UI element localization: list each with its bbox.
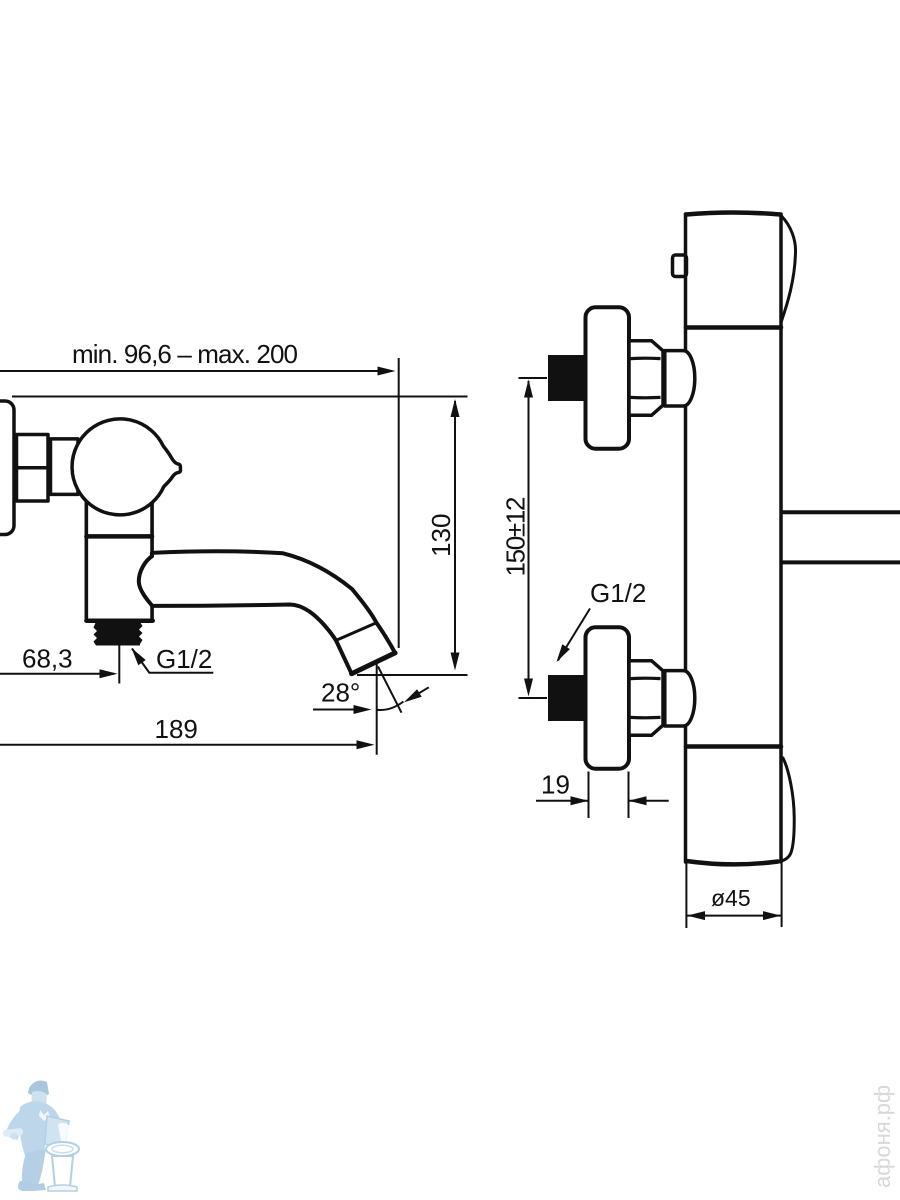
body edges [684,214,688,351]
svg-text:афоня.рф: афоня.рф [870,1085,895,1188]
svg-text:189: 189 [155,714,198,744]
svg-text:68,3: 68,3 [22,644,73,674]
svg-text:min. 96,6 – max. 200: min. 96,6 – max. 200 [72,339,298,369]
svg-text:G1/2: G1/2 [156,644,212,674]
svg-text:19: 19 [541,770,570,800]
top fitting yc=378 [548,307,695,448]
left view dimensions [0,358,468,755]
aerator cross line [336,623,376,641]
svg-text:150±12: 150±12 [501,497,531,577]
spout [139,551,395,673]
hex nut side [17,435,49,502]
outlet face thick [352,653,396,674]
right view dimensions [519,378,782,928]
top cap [686,213,780,215]
handle knob [72,419,180,515]
svg-text:28°: 28° [321,678,360,708]
connector [51,439,79,495]
bottom cap [686,744,781,749]
svg-text:ø45: ø45 [711,885,751,911]
body column [86,500,152,621]
svg-text:G1/2: G1/2 [590,578,646,608]
tab [673,255,687,277]
pipe [782,510,900,514]
bottom fitting yc=698 [548,627,695,768]
thread black [94,623,143,646]
wall flange [0,401,14,535]
svg-text:130: 130 [426,514,456,557]
